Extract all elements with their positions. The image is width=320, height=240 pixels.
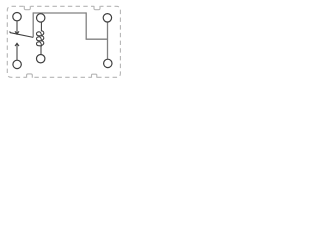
switch SPDT (left) (10, 21, 33, 60)
pin coil+ (top-middle) (37, 14, 45, 22)
pin lead from NO pin up (16, 44, 18, 60)
coil winding path (36, 22, 43, 54)
notch top-right (orientation notch) (94, 6, 100, 10)
wires (gray nets) (33, 12, 107, 59)
arrowhead down (NC contact) (15, 31, 19, 34)
pin common top (top-right) (103, 14, 111, 22)
pin NO (bottom-left) (13, 60, 21, 68)
wire: left vertical drop to switch blade (32, 12, 34, 37)
pin common bottom (bottom-right) (104, 59, 112, 67)
wire: common rail between top and bottom common pins (107, 22, 109, 59)
notch top-left (orientation notch) (24, 6, 30, 10)
pin lead from NC pin down (16, 21, 18, 34)
blade end hook (9, 31, 12, 33)
wire: top horizontal from switch drop to right drop (33, 12, 86, 14)
coil L1 (middle) (36, 22, 43, 54)
wire: horizontal to common rail (86, 38, 108, 40)
arrowhead up (NO contact) (15, 43, 19, 46)
switch blade (armature) (10, 33, 33, 38)
relay package dashed outline (7, 6, 120, 78)
pin coil- (bottom-middle) (37, 55, 45, 63)
notch bottom-left (orientation notch) (27, 74, 33, 78)
pin NC (top-left) (13, 13, 21, 21)
background (0, 0, 128, 84)
pin circles (13, 13, 112, 69)
notch bottom-right (orientation notch) (92, 74, 97, 78)
wire: right vertical drop (85, 12, 87, 39)
